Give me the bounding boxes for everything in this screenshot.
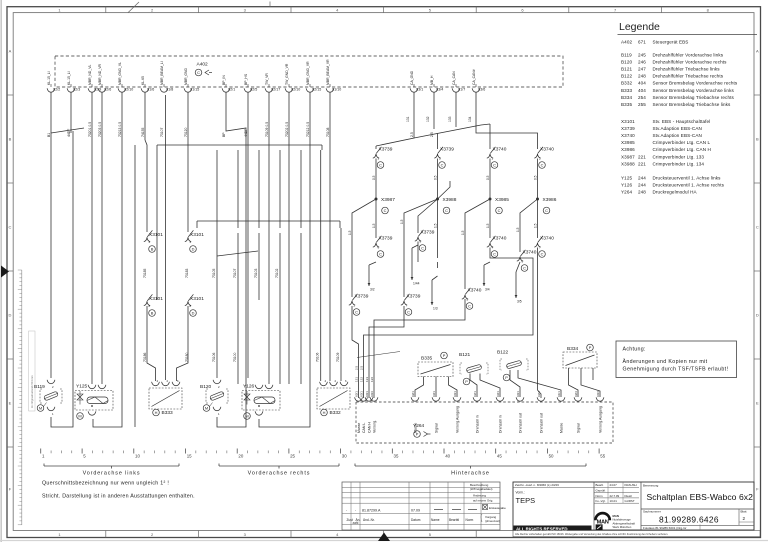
svg-text:Druckregelmodul HA: Druckregelmodul HA [653,190,698,195]
svg-text:1.5: 1.5 [516,227,520,232]
svg-text:X4/3: X4/3 [596,391,600,397]
svg-text:81.99289.6426: 81.99289.6426 [659,515,719,525]
svg-text:D: D [756,313,759,318]
svg-text:CAN L: CAN L [362,423,366,433]
svg-text:30: 30 [342,454,347,459]
svg-text:Hinterachse: Hinterachse [451,471,490,477]
svg-text:73108: 73108 [326,127,330,137]
svg-text:C: C [441,163,444,168]
svg-text:X3988: X3988 [443,197,457,203]
svg-text:Vorm.:: Vorm.: [516,491,525,495]
svg-text:245: 245 [638,53,646,58]
svg-text:MBR_GND_VR: MBR_GND_VR [306,61,310,85]
svg-text:73203 0.5: 73203 0.5 [98,122,102,137]
svg-text:136: 136 [370,377,374,382]
svg-text:X3740: X3740 [523,250,537,256]
svg-text:BP_IN: BP_IN [222,75,226,85]
svg-text:Y125: Y125 [621,176,632,181]
svg-text:X3985: X3985 [621,140,635,145]
svg-text:0.5: 0.5 [434,175,438,180]
svg-text:auf neuem Orig.: auf neuem Orig. [473,499,493,503]
svg-text:Steuergerät EBS: Steuergerät EBS [653,40,689,45]
svg-text:X2/10: X2/10 [124,88,133,92]
svg-text:H: H [323,410,326,415]
svg-text:X2/6: X2/6 [104,88,111,92]
axis group brackets [44,464,586,477]
svg-text:Stv. EBS - Hauptschalttafel: Stv. EBS - Hauptschalttafel [653,119,711,124]
svg-text:B334: B334 [621,95,632,100]
svg-text:M: M [39,406,42,411]
svg-text:X2/1: X2/1 [411,391,415,397]
X3740 row1 c3 [487,147,507,169]
svg-text:Masse: Masse [414,423,418,433]
scan edge left [0,0,2,542]
svg-text:50: 50 [549,454,554,459]
svg-text:B: B [151,247,154,252]
svg-text:73106: 73106 [316,352,320,362]
svg-text:X3988: X3988 [621,161,635,166]
routing brackets down to Y264 [352,248,541,399]
svg-text:M: M [245,414,248,419]
X3101 connector pair lower [144,294,163,316]
svg-text:C: C [407,310,410,315]
svg-text:X3739: X3739 [379,236,393,242]
svg-text:Drehzahl in: Drehzahl in [499,415,503,433]
svg-text:248: 248 [638,74,646,79]
svg-text:B334: B334 [567,346,579,352]
svg-text:CA_GND: CA_GND [410,70,414,85]
svg-text:B332: B332 [621,81,632,86]
svg-text:TW_GND_VR: TW_GND_VR [285,63,289,85]
svg-text:X1/15: X1/15 [190,88,199,92]
svg-text:Sensor Bremsbelag Vorderachse: Sensor Bremsbelag Vorderachse links [653,88,735,93]
connector row pins of A402 [47,59,485,137]
svg-text:X2/1: X2/1 [354,391,358,397]
svg-text:Masse: Masse [560,423,564,433]
svg-text:BP_HS: BP_HS [244,73,248,85]
title block [513,482,754,532]
svg-text:E: E [756,401,759,406]
svg-text:X2/9: X2/9 [94,88,101,92]
svg-text:73201 0.5: 73201 0.5 [88,122,92,137]
svg-text:40: 40 [445,454,450,459]
svg-text:244: 244 [638,183,646,188]
svg-text:X2/17: X2/17 [271,88,280,92]
svg-text:X3101: X3101 [190,232,204,238]
svg-text:C: C [756,225,759,230]
svg-text:X2/1: X2/1 [537,391,541,397]
svg-text:A402: A402 [621,40,632,45]
svg-text:73105: 73105 [212,268,216,278]
svg-text:X3739: X3739 [355,294,369,300]
svg-text:404: 404 [638,81,646,86]
svg-text:X3/1: X3/1 [496,391,500,397]
svg-text:D: D [9,313,12,318]
CAN wires descend from A402 X3 pins [376,93,538,150]
svg-text:Drucksteuerventil 1. Achse rec: Drucksteuerventil 1. Achse rechts [653,183,725,188]
rights strip [513,531,760,537]
svg-text:73120: 73120 [184,127,188,137]
svg-text:C: C [545,208,548,213]
svg-text:X3/1: X3/1 [416,88,423,92]
svg-text:C: C [541,163,544,168]
Y264 label [413,423,431,437]
svg-text:Stricht. Darstellung ist in an: Stricht. Darstellung ist in anderen Auss… [42,494,195,500]
svg-text:Änd.-Nr.: Änd.-Nr. [363,518,375,522]
svg-text:X3986: X3986 [543,197,557,203]
svg-text:Signal: Signal [435,423,439,433]
wires group1 vertical runs [51,93,189,428]
svg-text:X1/1: X1/1 [557,391,561,397]
svg-text:C: C [421,246,424,251]
svg-text:2: 2 [743,516,746,521]
Y264 top pin row [354,391,604,433]
X3740 row3 [462,288,482,310]
svg-text:Alle Rechte vorbehalten gemäß: Alle Rechte vorbehalten gemäß ISO 16016.… [515,532,668,536]
svg-text:X4/1: X4/1 [365,391,369,397]
svg-text:(W/Freigabedatei): (W/Freigabedatei) [470,487,492,491]
svg-text:Fotolaus 81 99289 6001 (Org-: Fotolaus 81 99289 6001 (Org-Gr [643,526,687,530]
svg-text:247: 247 [638,67,646,72]
svg-text:1.5: 1.5 [434,223,438,228]
svg-text:B120: B120 [200,384,212,390]
svg-text:Blatt: Blatt [741,509,747,513]
svg-text:Sachnummer: Sachnummer [643,509,661,513]
svg-text:E: E [9,401,12,406]
svg-text:73213 0.5: 73213 0.5 [118,122,122,137]
svg-text:Y126: Y126 [243,384,255,390]
fold marks [128,2,139,13]
crimp junction X3987 [372,159,557,214]
svg-text:Versorg.: Versorg. [373,420,377,433]
op ECU A402 dashed box [55,56,563,87]
svg-text:Zeichn.-Ausf. n. M3066 (L) 2: Zeichn.-Ausf. n. M3066 (L) 23/26 [515,483,559,487]
speed sensor B122 [497,350,561,398]
svg-text:Datum: Datum [411,518,421,522]
svg-text:1.5: 1.5 [348,230,352,235]
svg-text:B120: B120 [621,60,632,65]
svg-text:X1/8: X1/8 [166,88,173,92]
valve Y126 [242,384,280,420]
svg-text:X2/15: X2/15 [312,88,321,92]
row2 stubs w arrows [368,242,522,311]
svg-text:244: 244 [638,176,646,181]
svg-text:Diestl: Diestl [625,494,633,498]
X3739 row1 c2 [434,147,454,169]
svg-text:B335: B335 [421,356,433,362]
svg-text:671: 671 [638,40,646,45]
svg-text:X3/6: X3/6 [478,88,485,92]
X3739 row1 c1 [373,147,393,169]
svg-text:B: B [9,137,12,142]
svg-text:404: 404 [638,88,646,93]
sensor B120 [200,380,228,416]
sensor B119 [34,380,62,416]
svg-text:Stv.Adaption EBS-CAN: Stv.Adaption EBS-CAN [653,126,702,131]
svg-text:73183: 73183 [185,268,189,278]
svg-text:1.5: 1.5 [372,223,376,228]
svg-text:X3986: X3986 [621,147,635,152]
svg-text:73100: 73100 [233,352,237,362]
svg-text:Geprüft: Geprüft [596,489,606,493]
revision table [342,482,506,530]
svg-text:Drehzahl out: Drehzahl out [540,413,544,433]
svg-text:2.5: 2.5 [360,365,364,370]
svg-text:X3740: X3740 [493,147,507,153]
svg-text:M: M [78,414,81,419]
svg-text:10: 10 [135,454,140,459]
svg-text:Änderungen und Kopien nur mit: Änderungen und Kopien nur mit [623,358,708,365]
svg-text:Y264: Y264 [621,190,632,195]
wires group2 vertical runs [135,93,341,428]
svg-text:MBR_GND_VL: MBR_GND_VL [118,62,122,85]
svg-text:Drehzahl out: Drehzahl out [519,413,523,433]
svg-text:255: 255 [638,102,646,107]
svg-text:35: 35 [394,454,399,459]
svg-text:P: P [589,345,592,350]
svg-text:P: P [465,379,468,384]
svg-text:132: 132 [360,377,364,382]
speed sensor B121 [459,352,500,397]
svg-text:Werk München: Werk München [613,525,632,529]
svg-text:B335: B335 [621,102,632,107]
svg-text:MAN: MAN [597,519,609,525]
svg-text:Drehzahlfühler Vorderachse lin: Drehzahlfühler Vorderachse links [653,53,724,58]
svg-text:B332: B332 [330,410,342,416]
svg-text:Vorderachse rechts: Vorderachse rechts [248,471,311,477]
svg-text:1.5: 1.5 [400,219,404,224]
svg-text:B119: B119 [621,53,632,58]
svg-text:73107: 73107 [160,127,164,137]
svg-text:132: 132 [426,116,430,122]
svg-text:24.07: 24.07 [610,483,618,487]
svg-text:Y125: Y125 [76,384,88,390]
svg-text:Im Originalmaßstab 504 mm: Im Originalmaßstab 504 mm [30,375,34,408]
svg-text:X3101: X3101 [621,119,635,124]
X3739 row3b [401,294,421,316]
svg-text:73109: 73109 [336,352,340,362]
svg-text:Änderung: Änderung [473,494,486,498]
svg-text:X4/1: X4/1 [453,391,457,397]
svg-text:X3987: X3987 [621,154,635,159]
svg-text:X2/3: X2/3 [73,88,80,92]
svg-text:C: C [384,208,387,213]
svg-text:X2/3: X2/3 [574,391,578,397]
wires below X3101 to B333 [147,306,188,381]
legend block [618,21,758,195]
left margin mm ruler [18,270,35,525]
svg-text:MBR_ND_VL: MBR_ND_VL [88,65,92,85]
svg-text:B119: B119 [34,384,45,390]
svg-text:MB_H: MB_H [430,75,434,85]
svg-text:Drehzahlfühler Triebachse link: Drehzahlfühler Triebachse links [653,67,721,72]
svg-text:X1/7: X1/7 [458,88,465,92]
branch diagonals from junctions [348,181,538,297]
svg-text:73185: 73185 [143,268,147,278]
svg-text:1.5: 1.5 [486,223,490,228]
svg-text:X3987: X3987 [381,197,395,203]
svg-text:246: 246 [638,60,646,65]
svg-text:X3740: X3740 [493,236,507,242]
svg-text:P: P [505,375,508,380]
svg-text:73202 0.5: 73202 0.5 [285,122,289,137]
svg-text:73106: 73106 [212,352,216,362]
svg-text:Crimpverbinder Ltg. 134: Crimpverbinder Ltg. 134 [653,161,705,166]
svg-text:X3739: X3739 [440,147,454,153]
svg-text:C: C [493,163,496,168]
svg-text:20: 20 [238,454,243,459]
svg-text:B121: B121 [621,67,632,72]
svg-text:Legende: Legende [619,21,660,33]
svg-text:B: B [151,311,154,316]
svg-text:B1: B1 [47,133,51,137]
svg-text:X1/6: X1/6 [147,88,154,92]
svg-text:73186: 73186 [143,352,147,362]
svg-text:2.5: 2.5 [355,365,359,370]
svg-text:Drucksteuerventil 1. Achse lin: Drucksteuerventil 1. Achse links [653,176,722,181]
svg-text:X3101: X3101 [149,296,163,302]
svg-text:Sensor Bremsbelag Vorderachse: Sensor Bremsbelag Vorderachse rechts [653,81,738,86]
svg-text:CAN H: CAN H [368,422,372,433]
svg-text:TW_VR: TW_VR [265,73,269,85]
svg-text:2.5: 2.5 [410,132,414,137]
svg-text:Versorg.Ausgang: Versorg.Ausgang [599,406,603,433]
bottom scale ruler [41,449,606,459]
svg-text:X3739: X3739 [379,147,393,153]
svg-text:(phneuzust): (phneuzust) [485,519,500,523]
svg-text:73212 0.5: 73212 0.5 [306,122,310,137]
X3740 row2c [517,250,537,272]
svg-text:22.7.09: 22.7.09 [610,494,620,498]
svg-text:07.09: 07.09 [411,509,420,513]
svg-text:Norm: Norm [466,518,474,522]
svg-text:B: B [756,137,759,142]
svg-text:73109 0.5: 73109 0.5 [265,122,269,137]
svg-text:B333: B333 [162,410,174,416]
svg-text:Versorg.Ausgang: Versorg.Ausgang [456,406,460,433]
svg-text:H: H [155,410,158,415]
svg-text:Bearbtl: Bearbtl [449,518,459,522]
svg-text:Crimpverbinder Ltg. 133: Crimpverbinder Ltg. 133 [653,154,705,159]
svg-text:C: C [498,208,501,213]
svg-text:MBR_BEAM_VR: MBR_BEAM_VR [326,59,330,85]
X3740 row1 c4 [534,147,554,169]
svg-text:X2/1: X2/1 [228,88,235,92]
pad sensor B335 [415,352,457,397]
svg-text:B121: B121 [459,352,471,358]
svg-text:C: C [379,163,382,168]
svg-text:X3/1: X3/1 [359,391,363,397]
svg-text:C: C [541,252,544,257]
svg-text:74155: 74155 [141,127,145,137]
svg-text:55: 55 [600,454,605,459]
svg-text:C: C [445,208,448,213]
svg-text:133: 133 [448,116,452,122]
pad sensor B334 [563,344,600,397]
svg-text:1/44: 1/44 [413,282,420,286]
svg-text:81.87299.A: 81.87299.A [362,509,381,513]
svg-text:0.5: 0.5 [372,175,376,180]
svg-text:1.5: 1.5 [534,223,538,228]
svg-text:133: 133 [365,377,369,382]
svg-text:15: 15 [187,454,192,459]
Y264 druckregelmodul dashed box [356,402,613,443]
svg-text:10-01: 10-01 [610,499,618,503]
svg-text:Stv.Adaption EBS-CAN: Stv.Adaption EBS-CAN [653,133,702,138]
svg-text:221: 221 [638,161,646,166]
svg-text:X2/2: X2/2 [53,88,60,92]
svg-text:Y126: Y126 [621,183,632,188]
svg-text:Genehmigung durch TSF/TSFB erl: Genehmigung durch TSF/TSFB erlaubt! [623,367,729,373]
svg-text:C: C [523,266,526,271]
svg-text:X1/10: X1/10 [332,88,341,92]
svg-text:X3740: X3740 [540,147,554,153]
svg-text:C: C [493,252,496,257]
svg-text:Benennung: Benennung [643,484,659,488]
svg-text:X3985: X3985 [495,197,509,203]
svg-text:CA_CAN: CA_CAN [452,71,456,85]
svg-text:KL.65: KL.65 [141,76,145,85]
svg-text:C: C [468,304,471,309]
svg-text:134: 134 [468,116,472,122]
svg-text:73102: 73102 [275,268,279,278]
X3739 row2 [373,236,393,258]
svg-text:CA_CAN#: CA_CAN# [472,69,476,85]
pad sensor B332 [317,379,350,416]
X3101 connector pair upper [144,230,163,252]
svg-text:X3/4: X3/4 [436,88,443,92]
svg-text:3/5: 3/5 [517,300,522,304]
svg-text:1/3: 1/3 [433,307,438,311]
svg-text:MBR_BEAM_LI: MBR_BEAM_LI [160,61,164,85]
svg-text:Sensor Bremsbelag Triebachse l: Sensor Bremsbelag Triebachse links [653,102,732,107]
pad sensor B333 [149,379,182,416]
svg-text:X3739: X3739 [621,126,635,131]
svg-text:1.5: 1.5 [461,230,465,235]
svg-text:A: A [9,49,12,54]
svg-text:Name: Name [431,518,440,522]
svg-text:X2/1: X2/1 [473,391,477,397]
svg-text:0.5: 0.5 [534,175,538,180]
svg-text:BP: BP [222,132,226,137]
svg-text:GURST: GURST [625,499,635,503]
svg-text:zahl: zahl [353,521,359,525]
svg-text:D: D [192,247,195,252]
svg-text:131: 131 [406,116,410,122]
svg-text:KL.15_LI: KL.15_LI [67,71,71,85]
svg-text:Drehzahlfühler Vorderachse rec: Drehzahlfühler Vorderachse rechts [653,60,728,65]
svg-text:X4/1: X4/1 [516,391,520,397]
svg-text:MBR_GND: MBR_GND [184,67,188,85]
X3740 row2b [534,236,554,258]
svg-text:X3101: X3101 [190,296,204,302]
svg-text:D: D [192,311,195,316]
svg-text:248: 248 [638,190,646,195]
svg-text:Bearb: Bearb [596,483,604,487]
svg-text:X2/5: X2/5 [250,88,257,92]
svg-text:Achtung:: Achtung: [623,347,646,353]
svg-text:Sensor Bremsbelag Triebachse r: Sensor Bremsbelag Triebachse rechts [653,95,735,100]
svg-text:TEPS: TEPS [516,496,536,505]
svg-text:A402: A402 [197,62,209,68]
svg-text:X3740: X3740 [621,133,635,138]
achtung note box [616,341,737,378]
label A402 [195,62,212,76]
svg-text:X4/3: X4/3 [370,391,374,397]
svg-text:Signal: Signal [577,423,581,433]
X3740 row2 [487,236,507,258]
svg-text:X2/10: X2/10 [291,88,300,92]
